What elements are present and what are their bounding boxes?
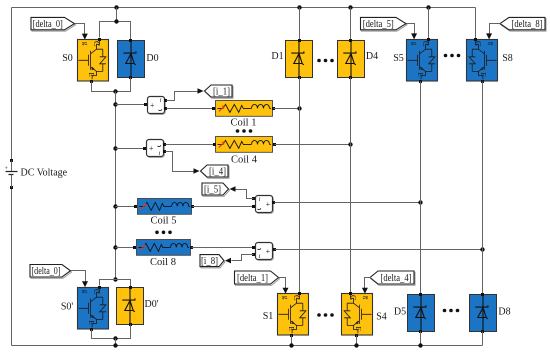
svg-text:D0: D0 [146,53,158,64]
svg-text:[i_1]: [i_1] [213,86,230,97]
pin - port of sensor I5 [272,201,275,204]
pin top port of D8 [481,293,484,296]
transistor S8 (IGBT block, mirrored) [467,40,498,82]
pin top port of D0' [129,286,132,289]
inductor Coil 8 block [137,240,191,256]
diode D0' block [117,288,144,325]
From tag [delta_8] [500,17,546,31]
svg-text:D0': D0' [144,299,158,310]
wire bottom DC bus [12,345,483,347]
wire sensor1 to coil1 [167,108,213,110]
svg-text:[delta_1]: [delta_1] [237,273,268,284]
dots ellipsis between S1 and S4 [317,313,334,317]
pin bottom port of D5 [419,330,422,333]
node junction bottom bus S1 [289,343,293,347]
svg-text:i: i [259,253,261,260]
pin + port of sensor I8 [252,246,255,249]
wire S4 emitter to bottom bus [356,336,358,346]
wire left DC bus lower [11,188,13,346]
pin bottom port of D4 [349,76,352,79]
pin C port of S0 [98,38,101,41]
From tag [delta_0'] [30,265,72,279]
wire S0-D0 top link [100,22,131,40]
node junction trunk row coil8 [113,245,117,249]
wire top bus to D1 [299,8,301,41]
arrowhead into tag i_5 [230,186,236,192]
wire sensor3 return to leg S5-D5 [275,202,421,204]
svg-text:+: + [149,144,154,153]
pin C port of S0' [98,286,101,289]
svg-text:D5: D5 [394,307,406,318]
wire leg D4 to S4 [350,78,352,294]
node junction coil8 return on leg [480,247,484,251]
current measurement sensor I8 [256,243,274,261]
node junction bottom bus S4 [354,343,358,347]
svg-text:i: i [160,97,162,104]
pin left port of Coil 1 [212,107,215,110]
wire top bus corner to S8 collector [475,8,477,40]
arrowhead into S4 gate [362,288,368,294]
wire top bus to S5 collector [428,8,430,40]
dots ellipsis between D5 and D8 [443,309,460,313]
DC voltage source V1 [5,159,18,189]
svg-text:[delta_0]: [delta_0] [32,266,61,277]
diode D1 block [286,41,313,78]
wire D5 bottom to bus [420,332,422,346]
diode D8 block [470,295,497,332]
pin - port of sensor I8 [273,248,276,251]
svg-text:[i_4]: [i_4] [209,166,226,177]
Goto tag [i_5] [202,183,230,196]
pin i port of sensor I4 [163,150,166,153]
node junction top bus to S0/D0 [114,5,118,9]
pin E port of S4 [355,334,358,337]
wire coil8 to sensor 4 [192,247,255,249]
pin E port of S1 [290,334,293,337]
wire S0' emitter down to link [92,325,131,339]
pin top port of D5 [419,293,422,296]
node junction top bus S5 [426,5,430,9]
wire leg S5 emitter to D5 [420,82,422,295]
pin right port of Coil 4 [273,143,276,146]
inductor Coil 4 block [216,137,273,153]
svg-text:i: i [159,150,161,157]
svg-text:[delta_8]: [delta_8] [512,19,543,30]
node junction S0'/D0' bottom link [113,336,117,340]
pin + port of sensor I1 [144,103,147,106]
transistor S0 (IGBT block) [78,40,109,82]
pin + port of sensor I4 [143,147,146,150]
svg-text:D4: D4 [366,51,378,62]
pin - port of sensor I4 [163,143,166,146]
pin C port of S5 [427,38,430,41]
wire trunk to coil5 [116,206,137,208]
wire trunk to coil8 [116,247,136,249]
From tag [delta_1] [235,271,280,285]
wire sensor2 to coil4 [166,144,215,146]
wire left DC bus upper [11,8,13,162]
svg-text:S1: S1 [263,311,274,322]
svg-text:[i_8]: [i_8] [201,256,218,267]
wire delta_1 to S1 gate [279,278,286,289]
wire sensor4 return to leg S8-D8 [275,249,483,251]
svg-text:DC Voltage: DC Voltage [21,168,68,179]
wire sensor3 signal to goto i_5 [236,190,254,199]
svg-text:[i_5]: [i_5] [204,184,221,195]
node junction trunk row coil4 [113,146,117,150]
From tag [delta_4] [370,271,415,285]
transistor S1 (IGBT block) [278,294,309,336]
pin top port of D1 [298,39,301,42]
Goto tag [i_1] [205,85,234,98]
svg-text:[delta_4]: [delta_4] [381,273,412,284]
svg-text:S0': S0' [61,302,74,313]
wire trunk to current sensor 2 [116,148,146,150]
pin right port of Coil 5 [191,205,194,208]
node junction trunk row coil1 [113,102,117,106]
arrowhead into S5 gate [411,33,417,39]
wire S1 emitter to bottom bus [291,336,293,346]
svg-text:[delta_0]: [delta_0] [33,19,63,30]
arrowhead into S0 gate [82,34,88,40]
node junction S0/D0 bottom [113,89,117,93]
current measurement sensor I4 [147,140,165,158]
pin bottom port of D0' [129,323,132,326]
diode D5 block [408,295,435,332]
svg-text:Coil 4: Coil 4 [231,155,258,166]
arrowhead into S0' gate [82,281,88,287]
pin C port of S1 [298,292,301,295]
wire link down to bottom bus [115,339,117,346]
wire delta_4 to S4 gate [365,278,371,289]
wire S0 emitter down [92,78,131,92]
svg-text:S0: S0 [62,53,73,64]
wire leg S8 emitter to D8 [482,82,484,295]
node junction coil4 return on leg [348,142,352,146]
arrowhead into S8 gate [486,33,492,39]
svg-text:+: + [266,200,271,209]
node junction trunk at S0'/D0' top [113,277,117,281]
pin C port of S8 [474,38,477,41]
dots ellipsis between Coil 5 and Coil 8 [155,231,172,235]
dots ellipsis between S5 and S8 [444,54,461,58]
pin top port of D0 [129,39,132,42]
pin C port of S4 [349,292,352,295]
wire coil1 to leg D1-S1 [274,108,300,110]
pin i port of sensor I8 [252,253,255,256]
svg-text:+: + [266,247,271,256]
dots ellipsis between Coil 1 and Coil 4 [236,129,253,133]
node junction top bus D4 [348,5,352,9]
pin right port of Coil 8 [190,246,193,249]
transistor S0' (IGBT block) [78,288,109,330]
svg-text:D1: D1 [271,51,283,62]
Goto tag [i_8] [200,255,225,268]
svg-text:D8: D8 [498,307,510,318]
diode D4 block [338,41,365,78]
inductor Coil 5 block [138,199,192,215]
wire top bus to D4 [350,8,352,41]
current measurement sensor I1 [148,97,166,115]
pin bottom port of D0 [129,76,132,79]
wire delta_0' to S0' gate [71,271,86,283]
svg-text:Coil 5: Coil 5 [151,216,177,227]
arrowhead into S1 gate [283,288,289,294]
wire left trunk down to lower link [115,92,117,280]
svg-text:Coil 1: Coil 1 [231,118,257,129]
wire delta_8 to S8 gate [490,24,501,35]
arrowhead into tag i_1 [198,88,204,94]
svg-text:S5: S5 [393,53,404,64]
wire S0'-D0' top link [100,280,131,288]
wire D8 bottom to bus corner [482,332,484,346]
svg-text:S8: S8 [502,53,513,64]
inductor Coil 1 block [216,101,273,117]
wire delta_0 to S0 gate [75,24,85,35]
arrowhead into tag i_4 [194,168,200,174]
pin E port of S8 [481,80,484,83]
pin - port of sensor I1 [164,107,167,110]
wire top DC bus [12,7,476,9]
pin E port of S0 [90,80,93,83]
node junction bottom bus D5 [418,343,422,347]
pin i port of sensor I5 [252,197,255,200]
wire coil4 to leg D4-S4 [275,144,351,146]
transistor S5 (IGBT block) [407,40,438,82]
pin E port of S0' [90,328,93,331]
svg-text:+: + [150,101,155,110]
wire delta_5 to S5 gate [407,24,415,35]
node junction bottom bus left [113,343,117,347]
svg-text:Coil 8: Coil 8 [150,257,176,268]
From tag [delta_0] [31,17,76,31]
wire sensor4 signal to goto i_8 [232,255,254,261]
wire leg D1 to S1 [299,78,301,294]
pin left port of Coil 4 [213,143,216,146]
pin left port of Coil 8 [133,246,136,249]
pin + port of sensor I5 [252,205,255,208]
From tag [delta_5] [361,17,408,31]
pin right port of Coil 1 [272,107,275,110]
node junction top bus D1 [297,5,301,9]
Goto tag [i_4] [201,165,230,178]
node junction coil1 return on leg [297,106,301,110]
diode D0 block [118,41,145,78]
current measurement sensor I5 [256,196,274,214]
pin bottom port of D1 [298,76,301,79]
wire trunk to current sensor 1 [116,104,147,106]
svg-text:S4: S4 [376,312,387,323]
wire coil5 to sensor 3 [193,206,255,208]
pin top port of D4 [349,39,352,42]
node junction S0/D0 top [114,19,118,23]
wire sensor1 signal to goto i_1 [167,92,198,101]
arrowhead into tag i_8 [225,258,231,264]
node junction coil5 return on leg [418,200,422,204]
svg-text:i: i [259,196,261,203]
pin bottom port of D8 [481,330,484,333]
svg-text:[delta_5]: [delta_5] [363,19,394,30]
dots ellipsis between D1 and D4 [317,59,334,63]
pin left port of Coil 5 [134,205,137,208]
pin E port of S5 [419,80,422,83]
node junction trunk row coil5 [113,204,117,208]
transistor S4 (IGBT block, mirrored) [342,294,373,336]
wire sensor2 signal to goto i_4 [166,152,194,172]
pin i port of sensor I1 [164,99,167,102]
wire from top bus down to S0/D0 link [116,8,118,22]
